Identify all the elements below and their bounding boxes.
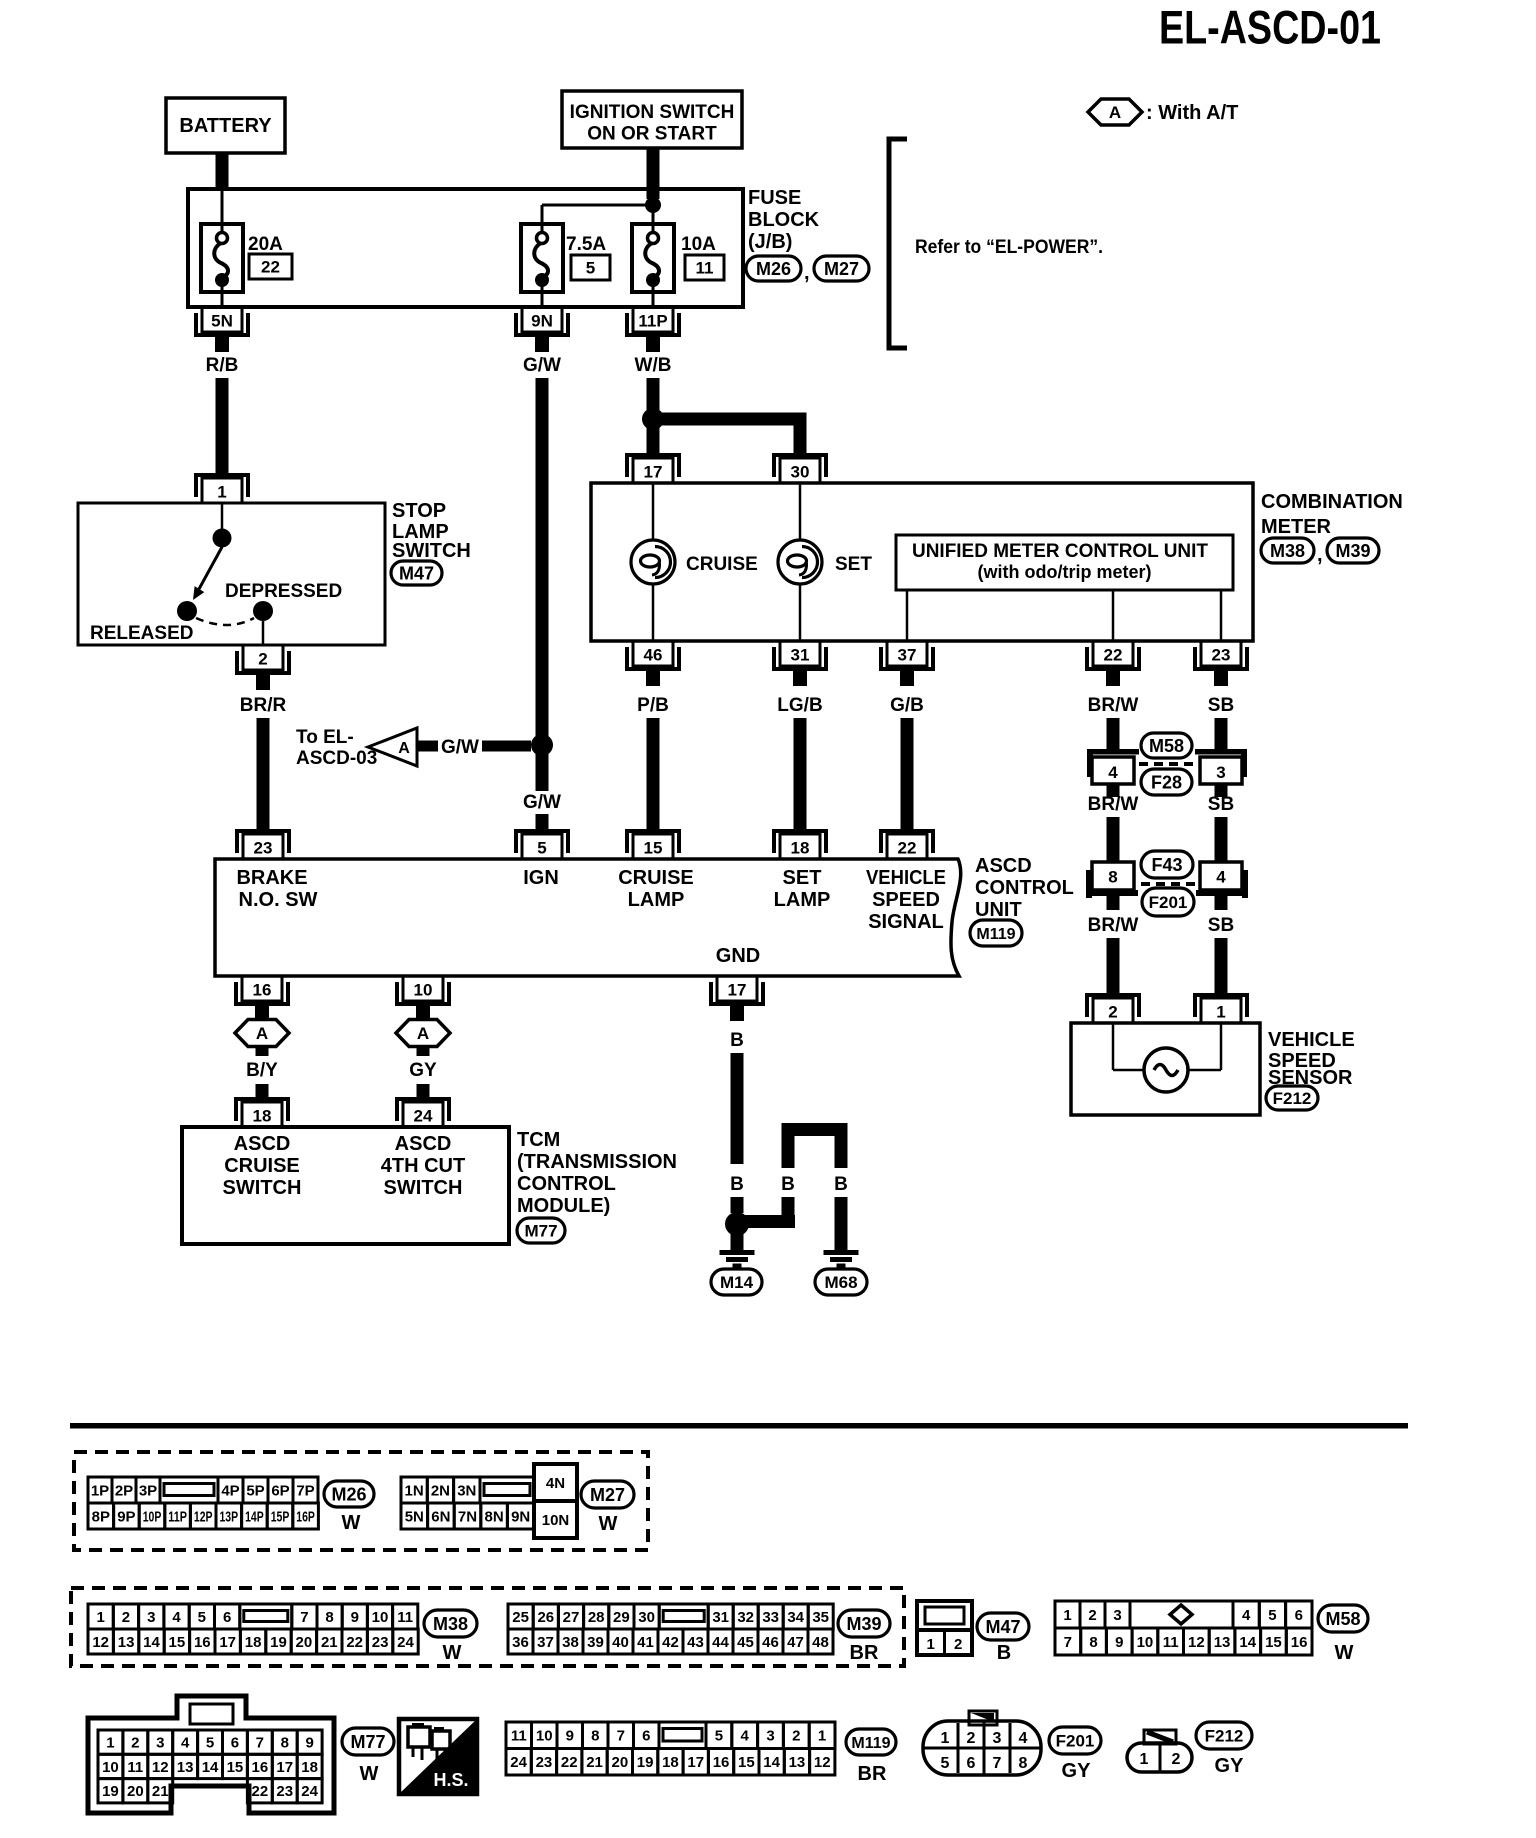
svg-text:5: 5 xyxy=(586,259,595,278)
svg-text:A: A xyxy=(256,1024,268,1043)
svg-text:FUSE: FUSE xyxy=(748,187,801,209)
svg-text:24: 24 xyxy=(301,1783,318,1800)
svg-text:7N: 7N xyxy=(458,1508,477,1525)
svg-text:R/B: R/B xyxy=(206,355,239,376)
svg-text:16: 16 xyxy=(194,1634,211,1651)
wire R/B label xyxy=(206,355,239,376)
svg-text:7: 7 xyxy=(617,1728,625,1745)
dashed link F43/F201 xyxy=(1141,882,1196,886)
svg-text:46: 46 xyxy=(644,646,663,665)
svg-text:15: 15 xyxy=(1265,1634,1282,1651)
connector 22 ascd xyxy=(881,831,933,859)
connector face M58 xyxy=(1055,1601,1312,1655)
svg-text:14: 14 xyxy=(1239,1634,1256,1651)
svg-text:UNIFIED METER CONTROL UNIT: UNIFIED METER CONTROL UNIT xyxy=(912,541,1208,562)
svg-text:RELEASED: RELEASED xyxy=(90,623,193,644)
svg-text:ASCD: ASCD xyxy=(395,1133,452,1155)
svg-text:ASCD-03: ASCD-03 xyxy=(296,748,377,769)
fuse 7.5A no.5 xyxy=(521,205,563,309)
wire BR/W label 3 xyxy=(1088,915,1139,936)
svg-text:16: 16 xyxy=(1291,1634,1308,1651)
connector 22 combination meter xyxy=(1087,641,1139,686)
connector 46 combination meter xyxy=(627,641,679,686)
connector face M119 xyxy=(506,1722,835,1775)
svg-text:F28: F28 xyxy=(1151,772,1182,792)
umcu wire to 37 xyxy=(906,590,909,641)
svg-text:6P: 6P xyxy=(271,1482,289,1499)
svg-text:7P: 7P xyxy=(296,1482,314,1499)
svg-text:20A: 20A xyxy=(248,234,283,255)
svg-text:CONTROL: CONTROL xyxy=(975,877,1074,899)
wire W/B run xyxy=(647,378,660,414)
tcm box xyxy=(182,1127,509,1244)
connector 17 combination meter xyxy=(627,455,679,483)
svg-text:,: , xyxy=(1317,544,1323,566)
svg-text:F212: F212 xyxy=(1205,1727,1244,1746)
connector 24 tcm xyxy=(397,1099,449,1127)
svg-text:14P: 14P xyxy=(245,1508,264,1525)
svg-text:9N: 9N xyxy=(511,1508,530,1525)
svg-text:(J/B): (J/B) xyxy=(748,231,792,253)
dashed box M26 M27 xyxy=(74,1452,648,1550)
svg-text:ASCD: ASCD xyxy=(975,855,1032,877)
H.S. data link symbol xyxy=(399,1719,477,1794)
svg-text:30: 30 xyxy=(791,463,810,482)
fuse block label FUSE BLOCK (J/B) M26 M27 xyxy=(746,187,869,284)
svg-text:46: 46 xyxy=(762,1634,779,1651)
svg-text:15: 15 xyxy=(738,1754,755,1771)
svg-text:11P: 11P xyxy=(168,1508,187,1525)
svg-text:19: 19 xyxy=(270,1634,287,1651)
connector 10 ascd xyxy=(397,976,449,1021)
svg-text:3: 3 xyxy=(1216,763,1225,782)
svg-text:BR/W: BR/W xyxy=(1088,915,1139,936)
svg-text:VEHICLE: VEHICLE xyxy=(1268,1029,1355,1051)
svg-text:47: 47 xyxy=(787,1634,804,1651)
svg-text:7: 7 xyxy=(993,1755,1002,1772)
svg-text:6N: 6N xyxy=(431,1508,450,1525)
svg-text:2P: 2P xyxy=(115,1482,133,1499)
svg-text:2: 2 xyxy=(258,650,267,669)
wire ignition switch to fuse block junction xyxy=(647,148,660,199)
svg-text:12: 12 xyxy=(1188,1634,1205,1651)
svg-text:17: 17 xyxy=(219,1634,236,1651)
svg-text:14: 14 xyxy=(143,1634,160,1651)
svg-text:SIGNAL: SIGNAL xyxy=(868,911,944,933)
wire SB label 3 xyxy=(1208,915,1234,936)
fuse 20A no.22 xyxy=(201,188,243,309)
svg-text:18: 18 xyxy=(253,1107,272,1126)
svg-text:F43: F43 xyxy=(1151,855,1182,875)
M26 oval label xyxy=(324,1481,374,1534)
svg-text:29: 29 xyxy=(613,1609,630,1626)
svg-text:45: 45 xyxy=(737,1634,754,1651)
svg-text:11: 11 xyxy=(397,1609,413,1626)
svg-text:24: 24 xyxy=(510,1754,527,1771)
svg-text:M38: M38 xyxy=(1270,541,1305,561)
svg-text:8: 8 xyxy=(591,1728,599,1745)
svg-text:6: 6 xyxy=(1295,1607,1303,1624)
connector 16 ascd xyxy=(236,976,288,1021)
svg-text:9: 9 xyxy=(351,1609,359,1626)
ground symbol M68 xyxy=(824,1250,859,1268)
svg-text:40: 40 xyxy=(612,1634,629,1651)
stop lamp switch text RELEASED xyxy=(90,623,193,644)
svg-text:B/Y: B/Y xyxy=(246,1060,278,1081)
wire BR/W run xyxy=(1107,718,1120,749)
svg-text:5N: 5N xyxy=(405,1508,424,1525)
svg-text:DEPRESSED: DEPRESSED xyxy=(225,581,342,602)
svg-text:24: 24 xyxy=(414,1107,433,1126)
svg-text:M119: M119 xyxy=(976,926,1015,943)
connector face M39 xyxy=(508,1604,833,1654)
svg-text:2: 2 xyxy=(131,1735,139,1752)
svg-text:F201: F201 xyxy=(1056,1732,1095,1751)
svg-text:2: 2 xyxy=(1088,1607,1096,1624)
connector 37 combination meter xyxy=(881,641,933,686)
wire G/W label xyxy=(523,355,561,376)
fuse 10A labels xyxy=(681,234,724,280)
svg-text:5: 5 xyxy=(1268,1607,1276,1624)
connector face M38 xyxy=(88,1604,418,1654)
svg-text:SB: SB xyxy=(1208,695,1234,716)
wire R/B run xyxy=(216,378,229,477)
connector 1 stop lamp switch xyxy=(196,475,248,503)
connector 17 ascd gnd xyxy=(711,976,763,1021)
svg-text:Refer to “EL-POWER”.: Refer to “EL-POWER”. xyxy=(915,236,1103,258)
svg-text:B: B xyxy=(997,1642,1011,1664)
wire G/W to IGN xyxy=(536,814,549,833)
svg-text:41: 41 xyxy=(637,1634,654,1651)
svg-text:B: B xyxy=(781,1174,795,1195)
connector 4 M58/F28 xyxy=(1087,749,1139,797)
svg-text:IGN: IGN xyxy=(523,867,559,889)
svg-text:22: 22 xyxy=(346,1634,363,1651)
svg-text:16P: 16P xyxy=(296,1508,315,1525)
svg-text:M58: M58 xyxy=(1149,736,1184,756)
svg-text:A: A xyxy=(398,740,410,757)
svg-text:39: 39 xyxy=(587,1634,604,1651)
svg-text:1: 1 xyxy=(1063,1607,1071,1624)
svg-text:9P: 9P xyxy=(117,1508,135,1525)
M39 oval label xyxy=(838,1610,890,1664)
svg-text:B: B xyxy=(730,1174,744,1195)
svg-text:23: 23 xyxy=(276,1783,293,1800)
svg-text:SPEED: SPEED xyxy=(872,889,940,911)
svg-text:BR/W: BR/W xyxy=(1088,695,1139,716)
svg-text:3: 3 xyxy=(147,1609,155,1626)
svg-text:F201: F201 xyxy=(1149,893,1188,912)
svg-text:,: , xyxy=(804,262,810,284)
svg-text:METER: METER xyxy=(1261,516,1332,538)
svg-text:18: 18 xyxy=(301,1759,318,1776)
svg-text:21: 21 xyxy=(152,1783,169,1800)
svg-text:13: 13 xyxy=(789,1754,806,1771)
svg-text:12P: 12P xyxy=(194,1508,213,1525)
M58 oval label xyxy=(1318,1605,1368,1664)
fuse 20A labels xyxy=(248,234,292,279)
svg-text:M47: M47 xyxy=(985,1617,1020,1637)
wire SB run 3 xyxy=(1215,938,1228,997)
svg-text:8: 8 xyxy=(1089,1634,1097,1651)
svg-text:COMBINATION: COMBINATION xyxy=(1261,491,1403,513)
svg-text:IGNITION SWITCH: IGNITION SWITCH xyxy=(570,102,735,123)
connector 2 stop lamp switch xyxy=(237,645,289,690)
svg-text:BR/R: BR/R xyxy=(240,695,287,716)
svg-text:43: 43 xyxy=(687,1634,704,1651)
svg-text:4P: 4P xyxy=(221,1482,239,1499)
svg-text:W: W xyxy=(599,1513,618,1535)
svg-text:10P: 10P xyxy=(143,1508,162,1525)
svg-text:22: 22 xyxy=(261,258,280,277)
svg-text:37: 37 xyxy=(898,646,917,665)
svg-text:2: 2 xyxy=(792,1728,800,1745)
vehicle speed sensor internals xyxy=(1113,1023,1221,1092)
svg-text:To EL-: To EL- xyxy=(296,727,354,748)
svg-text:13: 13 xyxy=(1214,1634,1231,1651)
svg-text:P/B: P/B xyxy=(637,695,669,716)
svg-text:3N: 3N xyxy=(457,1482,476,1499)
svg-text:13: 13 xyxy=(118,1634,135,1651)
svg-text:BLOCK: BLOCK xyxy=(748,209,820,231)
svg-text:LAMP: LAMP xyxy=(628,889,685,911)
svg-text:: With A/T: : With A/T xyxy=(1146,102,1238,124)
svg-text:8P: 8P xyxy=(92,1508,110,1525)
svg-text:G/B: G/B xyxy=(890,695,924,716)
svg-text:5: 5 xyxy=(715,1728,723,1745)
svg-text:3: 3 xyxy=(993,1730,1002,1747)
svg-text:1: 1 xyxy=(927,1636,935,1653)
svg-text:6: 6 xyxy=(642,1728,650,1745)
M27 oval label xyxy=(581,1481,634,1535)
svg-text:8: 8 xyxy=(1019,1755,1028,1772)
wire G/W run xyxy=(536,378,549,739)
svg-text:GY: GY xyxy=(1062,1760,1092,1782)
combination meter label M38 M39 xyxy=(1261,491,1403,566)
wire G/W label 2 xyxy=(523,792,561,813)
wire BR/R run xyxy=(257,718,270,833)
svg-text:N.O. SW: N.O. SW xyxy=(239,889,318,911)
wire B from gnd pin xyxy=(730,1030,744,1213)
stop lamp switch text DEPRESSED xyxy=(225,581,342,602)
svg-text:B: B xyxy=(834,1174,848,1195)
svg-text:10: 10 xyxy=(372,1609,389,1626)
connector face M47 xyxy=(917,1601,972,1655)
F28 oval xyxy=(1141,769,1192,795)
F201 oval xyxy=(1142,888,1194,916)
svg-text:22: 22 xyxy=(1104,646,1123,665)
wire G/W below junction xyxy=(536,751,549,791)
wire W/B down to 17 xyxy=(647,425,660,457)
connector 15 ascd xyxy=(627,831,679,859)
svg-text:23: 23 xyxy=(254,839,273,858)
ascd control unit label M119 xyxy=(970,855,1074,946)
wire battery to fuse block xyxy=(216,153,229,189)
svg-text:M77: M77 xyxy=(524,1222,557,1241)
svg-text:5N: 5N xyxy=(211,312,233,331)
wire BR/W run 2 xyxy=(1107,817,1120,862)
svg-text:G/W: G/W xyxy=(523,355,561,376)
svg-text:M27: M27 xyxy=(824,259,859,279)
tcm pin labels xyxy=(223,1133,466,1199)
svg-text:35: 35 xyxy=(812,1609,829,1626)
svg-text:17: 17 xyxy=(728,981,747,1000)
F201 oval label xyxy=(1049,1727,1101,1782)
svg-text:14: 14 xyxy=(202,1759,219,1776)
svg-text:11: 11 xyxy=(127,1759,143,1776)
svg-text:M38: M38 xyxy=(433,1614,468,1634)
svg-text:GY: GY xyxy=(1215,1755,1245,1777)
svg-text:21: 21 xyxy=(321,1634,338,1651)
svg-text:4: 4 xyxy=(1019,1730,1028,1747)
connector face M27 xyxy=(401,1464,577,1538)
svg-text:4: 4 xyxy=(172,1609,181,1626)
svg-text:1: 1 xyxy=(1140,1751,1149,1768)
svg-text:M14: M14 xyxy=(720,1273,754,1292)
svg-text:24: 24 xyxy=(397,1634,414,1651)
svg-text:16: 16 xyxy=(253,981,272,1000)
cruise lamp xyxy=(631,483,675,641)
svg-text:26: 26 xyxy=(537,1609,554,1626)
svg-text:9: 9 xyxy=(566,1728,574,1745)
svg-text:1: 1 xyxy=(1216,1003,1225,1022)
svg-text:G/W: G/W xyxy=(523,792,561,813)
svg-text:20: 20 xyxy=(612,1754,629,1771)
ground branch inverted U xyxy=(781,1123,848,1250)
svg-text:31: 31 xyxy=(712,1609,729,1626)
svg-text:17: 17 xyxy=(644,463,663,482)
dashed link M58/F28 xyxy=(1139,762,1196,766)
svg-text:SWITCH: SWITCH xyxy=(223,1177,302,1199)
umcu wire to 22 xyxy=(1112,590,1115,641)
svg-text:37: 37 xyxy=(537,1634,554,1651)
connector 5 ascd xyxy=(516,831,568,859)
svg-text:7: 7 xyxy=(300,1609,308,1626)
connector 5N fuse block xyxy=(196,307,248,352)
junction dot W/B xyxy=(642,408,664,430)
svg-text:SB: SB xyxy=(1208,794,1234,815)
svg-text:SET: SET xyxy=(835,554,872,575)
svg-text:CRUISE: CRUISE xyxy=(686,554,758,575)
svg-text:4N: 4N xyxy=(546,1475,565,1492)
svg-text:SB: SB xyxy=(1208,915,1234,936)
svg-text:20: 20 xyxy=(127,1783,144,1800)
svg-text:4: 4 xyxy=(1108,763,1118,782)
svg-text:16: 16 xyxy=(252,1759,269,1776)
svg-text:23: 23 xyxy=(536,1754,553,1771)
wire dot to m14 ground xyxy=(731,1234,744,1250)
vehicle speed sensor box xyxy=(1071,1023,1260,1115)
svg-text:22: 22 xyxy=(252,1783,269,1800)
svg-text:5P: 5P xyxy=(246,1482,264,1499)
svg-text:6: 6 xyxy=(231,1735,239,1752)
svg-text:17: 17 xyxy=(687,1754,704,1771)
svg-text:6: 6 xyxy=(967,1755,976,1772)
svg-text:12: 12 xyxy=(152,1759,169,1776)
wire SB label 2 xyxy=(1208,794,1234,815)
connector 23 ascd xyxy=(237,831,289,859)
svg-text:M39: M39 xyxy=(1335,541,1370,561)
svg-text:(TRANSMISSION: (TRANSMISSION xyxy=(517,1151,677,1173)
svg-text:BR: BR xyxy=(858,1763,887,1785)
M14 oval xyxy=(711,1269,762,1295)
svg-text:11: 11 xyxy=(696,259,714,278)
wire SB run 2 xyxy=(1215,817,1228,862)
ground symbol M14 xyxy=(720,1250,755,1268)
svg-text:CRUISE: CRUISE xyxy=(224,1155,300,1177)
svg-text:UNIT: UNIT xyxy=(975,899,1022,921)
M77 oval label xyxy=(342,1728,394,1785)
combination meter box xyxy=(591,483,1253,641)
wire junction to fuse 7.5A xyxy=(542,205,653,224)
svg-text:15: 15 xyxy=(644,839,663,858)
svg-text:W/B: W/B xyxy=(635,355,672,376)
A/T hexagon left xyxy=(235,1020,289,1047)
svg-text:G/W: G/W xyxy=(441,737,479,758)
svg-text:15: 15 xyxy=(169,1634,186,1651)
wire W/B label xyxy=(635,355,672,376)
connector 8 F43/F201 xyxy=(1086,862,1138,910)
svg-text:CONTROL: CONTROL xyxy=(517,1173,616,1195)
svg-text:A: A xyxy=(417,1024,429,1043)
legend hexagon A : With A/T xyxy=(1088,99,1238,125)
svg-text:28: 28 xyxy=(588,1609,605,1626)
wire SB label xyxy=(1208,695,1234,716)
svg-text:11: 11 xyxy=(511,1728,527,1745)
dashed box M38 M39 xyxy=(71,1588,904,1666)
connector 31 combination meter xyxy=(774,641,826,686)
svg-text:BRAKE: BRAKE xyxy=(236,867,307,889)
svg-text:34: 34 xyxy=(787,1609,804,1626)
wire P/B run xyxy=(647,718,660,833)
svg-text:M47: M47 xyxy=(399,563,434,583)
svg-text:2: 2 xyxy=(1172,1751,1181,1768)
junction dot G/W xyxy=(531,734,553,756)
stop lamp switch internals xyxy=(177,503,273,645)
svg-text:ASCD: ASCD xyxy=(234,1133,291,1155)
svg-text:15P: 15P xyxy=(271,1508,290,1525)
svg-text:22: 22 xyxy=(561,1754,578,1771)
svg-text:M27: M27 xyxy=(590,1485,625,1505)
svg-text:M119: M119 xyxy=(851,1735,890,1752)
svg-text:BATTERY: BATTERY xyxy=(179,115,272,137)
junction dot ground xyxy=(725,1212,749,1236)
connector 30 combination meter xyxy=(774,455,826,483)
M47 oval label xyxy=(977,1613,1029,1664)
wire G/B label xyxy=(890,695,924,716)
connector 18 ascd xyxy=(774,831,826,859)
unified meter control unit box xyxy=(896,535,1233,590)
svg-text:GY: GY xyxy=(409,1060,437,1081)
fuse 7.5A labels xyxy=(566,234,610,280)
svg-text:SET: SET xyxy=(783,867,822,889)
svg-text:7: 7 xyxy=(1064,1634,1072,1651)
svg-text:27: 27 xyxy=(563,1609,580,1626)
svg-text:4: 4 xyxy=(741,1728,750,1745)
svg-text:3: 3 xyxy=(766,1728,774,1745)
svg-text:W: W xyxy=(342,1512,361,1534)
svg-text:M39: M39 xyxy=(846,1614,881,1634)
F43 oval xyxy=(1141,851,1193,878)
svg-text:H.S.: H.S. xyxy=(433,1770,468,1790)
bracket refer to EL-POWER xyxy=(889,139,1103,348)
svg-text:32: 32 xyxy=(737,1609,754,1626)
wire BR/R label xyxy=(240,695,287,716)
svg-text:M26: M26 xyxy=(331,1484,366,1504)
svg-text:GND: GND xyxy=(716,945,760,967)
svg-text:7: 7 xyxy=(256,1735,264,1752)
vehicle speed sensor label F212 xyxy=(1266,1029,1355,1110)
